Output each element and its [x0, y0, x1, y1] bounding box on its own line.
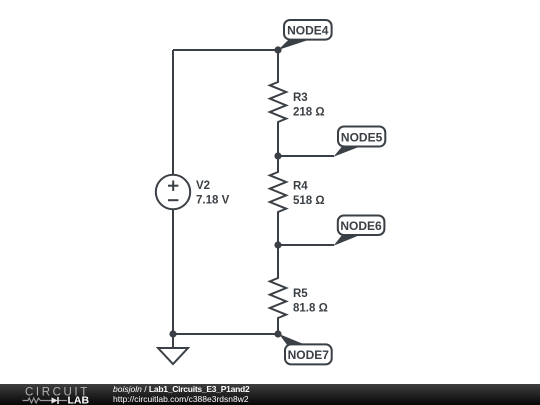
svg-text:218 Ω: 218 Ω — [293, 107, 325, 119]
svg-text:LAB: LAB — [68, 395, 90, 405]
svg-text:V2: V2 — [196, 180, 210, 192]
svg-text:NODE4: NODE4 — [287, 24, 329, 38]
svg-text:R4: R4 — [293, 181, 308, 193]
svg-text:7.18 V: 7.18 V — [196, 195, 230, 207]
svg-text:NODE7: NODE7 — [288, 348, 330, 362]
svg-text:81.8 Ω: 81.8 Ω — [293, 303, 328, 315]
svg-text:R3: R3 — [293, 92, 308, 104]
svg-text:R5: R5 — [293, 288, 308, 300]
svg-text:NODE5: NODE5 — [341, 130, 383, 144]
svg-text:518 Ω: 518 Ω — [293, 195, 325, 207]
svg-text:NODE6: NODE6 — [340, 219, 382, 233]
